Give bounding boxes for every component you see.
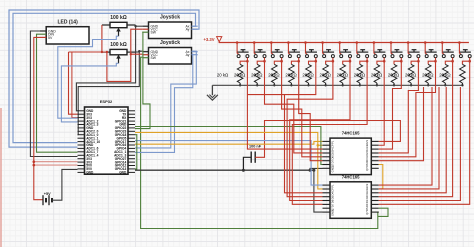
wire red SW10 to U2 right D3: [379, 61, 402, 149]
wire pink ESP32 3V3 pin: [33, 164, 78, 167]
pushbutton SW14: [458, 41, 471, 57]
svg-text:Ay: Ay: [186, 27, 190, 31]
svg-text:GND: GND: [331, 166, 335, 172]
wire black LED GND: [30, 31, 77, 157]
Joystick J2: [142, 40, 197, 64]
svg-text:3V3: 3V3: [365, 183, 369, 188]
svg-text:Joystick: Joystick: [160, 15, 180, 21]
svg-text:20 kΩ: 20 kΩ: [217, 73, 229, 78]
svg-text:74HC165: 74HC165: [342, 131, 360, 136]
battery BT1 +5V: [43, 192, 52, 205]
resistor R10 20 kΩ: [337, 58, 369, 87]
resistor R4 20 kΩ: [234, 58, 266, 87]
wire red loop U3 right 3V3: [379, 87, 432, 185]
resistor R16 20 kΩ: [439, 58, 471, 87]
wire red left-edge: [0, 108, 2, 247]
wire red SW14 to U3 right D0: [379, 61, 470, 204]
svg-text:D7: D7: [331, 159, 335, 163]
wire orange chip cascade U2 to U3: [379, 165, 383, 189]
svg-text:PL: PL: [331, 184, 335, 188]
svg-text:+3.3V: +3.3V: [203, 37, 214, 42]
pushbutton SW3: [270, 41, 283, 57]
svg-text:GND: GND: [119, 171, 127, 175]
resistor R13 20 kΩ: [388, 58, 420, 87]
svg-text:D3: D3: [365, 148, 369, 152]
ESP32 module U1: [78, 99, 136, 175]
svg-text:D4: D4: [331, 192, 335, 196]
svg-text:D5: D5: [331, 195, 335, 199]
wire ground rail: [212, 84, 462, 86]
svg-text:CE: CE: [365, 188, 369, 192]
svg-text:Ay: Ay: [186, 53, 190, 57]
LED (14) strip U-LED: [40, 20, 89, 45]
resistor R11 20 kΩ: [354, 58, 386, 87]
svg-text:SW: SW: [151, 30, 157, 34]
svg-text:PL: PL: [331, 140, 335, 144]
svg-text:D1: D1: [365, 199, 369, 203]
svg-text:5V: 5V: [48, 36, 53, 40]
wire red loop U3 right CE: [379, 87, 439, 189]
resistor R14 20 kΩ: [405, 58, 437, 87]
svg-text:D6: D6: [331, 199, 335, 203]
resistor R6 20 kΩ: [268, 58, 300, 87]
svg-text:D1: D1: [365, 156, 369, 160]
svg-text:20 kΩ: 20 kΩ: [422, 73, 434, 78]
wire red SW3 to U2 D6: [282, 61, 323, 157]
wire red 5V battery to LED: [34, 37, 43, 199]
wire black chip U2 GND: [309, 168, 323, 171]
wire orange ESP32 latch to chip U2 PL: [135, 141, 323, 144]
wire red capacitor to chips 3V3: [255, 121, 400, 158]
svg-text:SW: SW: [151, 56, 157, 60]
wire blue ESP32 to chip U3 PL: [135, 141, 323, 186]
pushbutton SW7: [338, 41, 351, 57]
svg-text:20 kΩ: 20 kΩ: [337, 73, 349, 78]
wire red +3.3V rail: [219, 41, 469, 44]
svg-text:D6: D6: [331, 156, 335, 160]
wire black pot2 right lead / Joystick2 GND to ESP32: [78, 50, 143, 135]
svg-text:D2: D2: [365, 195, 369, 199]
svg-text:D7: D7: [331, 203, 335, 207]
74HC165 shift register U2: [323, 131, 379, 175]
wire black chip U3 GND: [312, 169, 322, 212]
wire red SW6 to U3 D5: [287, 61, 333, 196]
resistor R3 20 kΩ: [217, 58, 249, 87]
pushbutton SW8: [356, 41, 369, 57]
wire black battery minus to ESP32 GND: [52, 169, 78, 200]
svg-text:20 kΩ: 20 kΩ: [302, 73, 314, 78]
wire green ESP32 stub down: [135, 135, 137, 169]
wire red supply to ESP32 second: [72, 52, 78, 118]
resistor R15 20 kΩ: [422, 58, 454, 87]
junction capacitor-ground: [242, 169, 245, 172]
svg-text:ESP32: ESP32: [100, 99, 113, 104]
svg-text:20 kΩ: 20 kΩ: [268, 73, 280, 78]
pushbutton SW4: [287, 41, 300, 57]
wire red SW11 to U2 right D2: [379, 61, 419, 153]
svg-text:100 kΩ: 100 kΩ: [110, 15, 127, 21]
wire red SW13 to U3 right D2: [379, 61, 453, 196]
pushbutton SW11: [407, 41, 420, 57]
svg-text:20 kΩ: 20 kΩ: [388, 73, 400, 78]
pushbutton SW10: [390, 41, 403, 57]
svg-text:20 kΩ: 20 kΩ: [354, 73, 366, 78]
wire red SW8 to U3 D7: [292, 61, 367, 204]
wire blue Joystick2 Ay to ESP32: [135, 54, 193, 152]
svg-text:Q7: Q7: [365, 167, 369, 171]
74HC165 shift register U3: [323, 175, 379, 219]
resistor R5 20 kΩ: [251, 58, 283, 87]
wire red Joystick VCC bus: [106, 29, 143, 81]
svg-text:D4: D4: [331, 148, 335, 152]
wire red loop U2 right D0: [379, 87, 424, 161]
wire orange ESP32 clock to chips CP: [135, 132, 323, 189]
svg-text:CE: CE: [365, 144, 369, 148]
svg-text:CP: CP: [331, 188, 335, 192]
svg-text:100 kΩ: 100 kΩ: [110, 42, 127, 48]
wire red SW1 to U2 D4: [247, 61, 322, 149]
svg-text:3V3: 3V3: [365, 140, 369, 145]
svg-text:20 kΩ: 20 kΩ: [234, 73, 246, 78]
resistor R7 20 kΩ: [285, 58, 317, 87]
svg-text:D0: D0: [365, 203, 369, 207]
wire red SW2 to U2 D5: [265, 61, 323, 153]
wire red loop U3 right D1: [379, 87, 461, 201]
pushbutton SW12: [424, 41, 437, 57]
svg-text:20 kΩ: 20 kΩ: [405, 73, 417, 78]
wire red SW5 to U3 D4: [247, 61, 322, 193]
ground symbol: [207, 85, 218, 100]
wire red SW9 to U2 right CE: [379, 61, 385, 145]
pushbutton SW6: [321, 41, 334, 57]
wire green chip U3 Q7 loop: [378, 208, 388, 216]
svg-text:D0: D0: [365, 159, 369, 163]
pushbutton SW1: [236, 41, 249, 57]
svg-text:74HC165: 74HC165: [342, 175, 360, 180]
svg-text:Q7: Q7: [365, 211, 369, 215]
svg-text:20 kΩ: 20 kΩ: [320, 73, 332, 78]
svg-text:20 kΩ: 20 kΩ: [251, 73, 263, 78]
svg-text:D2: D2: [365, 152, 369, 156]
wire blue pot R2 wiper to ESP32: [61, 63, 118, 122]
wire black pot1 right lead / Joystick1 GND to ESP32: [76, 25, 142, 111]
wire blue Joystick1 Ay to ESP32 (outer border): [9, 10, 199, 147]
potentiometer R1 100 kΩ: [102, 15, 135, 36]
svg-text:LED (14): LED (14): [57, 20, 78, 26]
resistor R8 20 kΩ: [302, 58, 334, 87]
svg-text:20 kΩ: 20 kΩ: [439, 73, 451, 78]
pushbutton SW2: [253, 41, 266, 57]
svg-text:GND: GND: [86, 171, 94, 175]
svg-text:20 kΩ: 20 kΩ: [285, 73, 297, 78]
pushbutton SW13: [441, 41, 454, 57]
svg-text:20 kΩ: 20 kΩ: [371, 73, 383, 78]
wire red SW4 to U2 D7: [299, 61, 323, 160]
wire red SW7 to U3 D6: [290, 61, 350, 200]
wire black ESP32 GND bus to chips: [135, 169, 314, 171]
svg-text:DS: DS: [365, 207, 369, 211]
svg-text:D3: D3: [365, 192, 369, 196]
svg-text:CP: CP: [331, 144, 335, 148]
svg-text:Joystick: Joystick: [160, 40, 180, 46]
svg-text:GND: GND: [331, 210, 335, 216]
wire blue pot R1 wiper to ESP32: [58, 36, 119, 118]
pushbutton SW5: [304, 41, 317, 57]
pushbutton SW9: [373, 41, 386, 57]
potentiometer R2 100 kΩ: [102, 42, 135, 63]
svg-text:D5: D5: [331, 152, 335, 156]
+3.3V supply flag: [203, 37, 221, 42]
wire green Joystick1 SW to ESP32: [135, 32, 150, 128]
wire blue Joystick1 Ax to ESP32 (inner border): [13, 13, 196, 142]
svg-text:DS: DS: [365, 163, 369, 167]
Joystick J1: [142, 15, 197, 39]
svg-text:100 nF: 100 nF: [249, 145, 262, 149]
wire green ESP32 to chip U2 Q7: [135, 127, 323, 165]
svg-text:+5V: +5V: [44, 192, 51, 196]
wire blue Joystick2 Ax to ESP32: [135, 51, 196, 148]
capacitor C1 100 nF: [243, 145, 261, 171]
wire green LED DIN to ESP32: [37, 34, 78, 152]
wire black pot right leads join: [135, 25, 139, 52]
wire red pot left leads supply: [69, 25, 107, 114]
resistor R9 20 kΩ: [320, 58, 352, 87]
wire red SW12 to U2 right D1: [379, 61, 436, 157]
wire red loop U3 right D3: [379, 87, 447, 193]
wire pink ESP32 5V pin: [33, 160, 78, 163]
resistor R12 20 kΩ: [371, 58, 403, 87]
wire green Joystick2 SW long bottom: [141, 57, 379, 228]
